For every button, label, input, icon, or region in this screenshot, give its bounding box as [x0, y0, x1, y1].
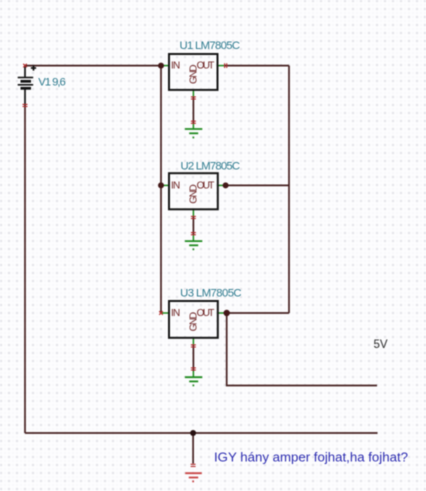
- svg-text:V1 9,6: V1 9,6: [38, 76, 66, 88]
- svg-text:GND: GND: [188, 312, 199, 332]
- svg-text:U3 LM7805C: U3 LM7805C: [180, 287, 242, 299]
- svg-text:IGY hány amper fojhat,ha fojha: IGY hány amper fojhat,ha fojhat?: [214, 450, 408, 465]
- svg-text:IN: IN: [171, 61, 180, 72]
- svg-text:5V: 5V: [374, 337, 388, 351]
- svg-text:U2 LM7805C: U2 LM7805C: [181, 161, 241, 173]
- svg-text:U1 LM7805C: U1 LM7805C: [180, 40, 241, 52]
- svg-text:IN: IN: [171, 180, 180, 191]
- svg-text:GND: GND: [188, 184, 199, 204]
- svg-text:IN: IN: [171, 308, 180, 319]
- svg-text:GND: GND: [188, 65, 199, 85]
